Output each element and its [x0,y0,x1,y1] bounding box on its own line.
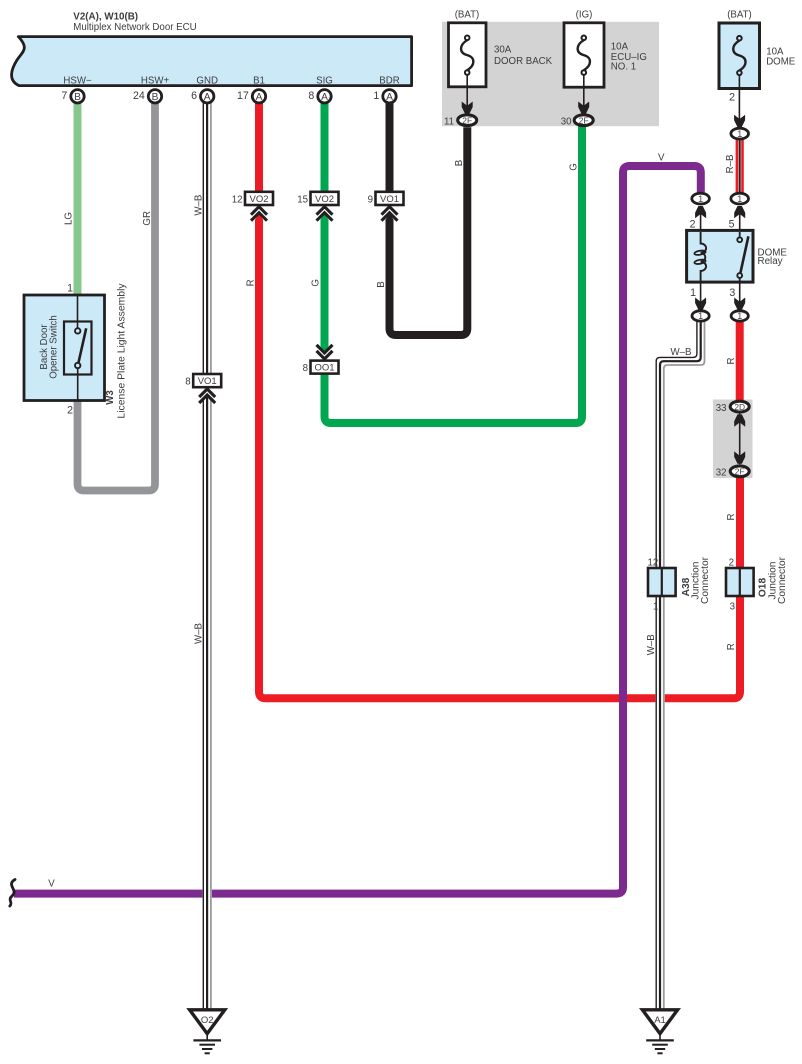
wire relay pin 3 to oval [739,282,741,302]
fuse 10A DOME [719,23,760,89]
svg-text:1: 1 [67,283,73,295]
ECU box V2(A) W10(B) [12,37,412,86]
svg-text:(IG): (IG) [576,10,593,21]
svg-text:R: R [726,358,737,365]
arrow into 2F (30) [578,102,589,114]
arrow up into 2D [734,414,745,426]
svg-text:HSW−: HSW− [63,76,92,87]
wire W-B (GND to ground O2) [203,103,211,1010]
svg-text:GR: GR [142,211,153,226]
pin 1 A [373,90,396,103]
wire fuse1 pin to connector 2F [466,75,468,107]
connector 1 (above relay pin5) [731,193,749,204]
svg-text:8: 8 [308,90,314,102]
svg-text:2F: 2F [735,467,745,477]
svg-text:R: R [726,643,737,650]
connector 1 (relay pin 1) [692,311,709,321]
svg-text:LG: LG [63,212,74,225]
svg-text:(BAT): (BAT) [455,10,480,21]
wire relay pin 1 to oval [700,282,702,302]
svg-text:OO1: OO1 [314,363,334,374]
wire G tip at VO2 [321,213,329,220]
svg-text:VO2: VO2 [315,194,334,205]
svg-text:2F: 2F [579,115,589,125]
pin 17 A [237,90,266,103]
svg-text:2: 2 [67,405,73,417]
svg-text:DOME: DOME [766,57,796,68]
svg-text:1: 1 [690,287,696,299]
svg-text:A: A [386,92,393,103]
svg-text:A: A [256,92,263,103]
svg-text:24: 24 [133,90,145,102]
svg-text:3: 3 [729,287,735,299]
wire GR (HSW+ to switch pin2) [78,103,156,491]
wire B (BDR to 30A fuse) [386,103,394,191]
svg-text:8: 8 [185,377,190,388]
svg-text:32: 32 [716,467,727,478]
svg-text:V2(A), W10(B): V2(A), W10(B) [73,12,138,23]
wire G tip at OO1 [321,346,329,353]
svg-text:30: 30 [561,116,572,127]
wire B tip at VO1 [386,213,394,220]
svg-text:1: 1 [737,194,742,204]
svg-text:B1: B1 [253,76,265,87]
svg-text:2D: 2D [734,402,745,412]
DOME relay box [687,230,753,282]
pin 6 A [191,90,214,103]
svg-text:8: 8 [303,363,308,374]
wire R-B (dome fuse to relay pin5) [737,140,743,193]
svg-text:R: R [726,514,737,521]
svg-text:1: 1 [698,194,703,204]
svg-text:1: 1 [373,90,379,102]
svg-text:12: 12 [232,194,243,205]
wire R (B1 to O18) [255,103,263,191]
junction panel 2D/2F (gray) [713,400,753,479]
svg-text:B: B [376,281,387,287]
line between 2D and 2F [739,414,741,465]
svg-text:Opener Switch: Opener Switch [49,315,60,379]
svg-text:A1: A1 [654,1015,666,1026]
svg-text:2: 2 [729,558,734,569]
fuse 10A ECU-IG NO.1 [564,23,604,87]
svg-text:NO. 1: NO. 1 [611,62,636,73]
svg-text:License Plate Light Assembly: License Plate Light Assembly [117,283,128,419]
connector 1 (below dome fuse) [731,128,749,139]
arrow into connector 1 (dome) [734,115,745,127]
svg-text:A: A [204,92,211,103]
svg-text:B: B [454,160,465,166]
svg-text:5: 5 [729,219,735,231]
svg-text:(BAT): (BAT) [727,10,752,21]
svg-text:VO1: VO1 [198,376,217,387]
svg-text:7: 7 [61,90,67,102]
svg-text:SIG: SIG [316,76,333,87]
svg-text:1: 1 [653,601,658,612]
arrow down into 2F [734,451,745,463]
svg-text:12: 12 [648,558,659,569]
pin 7 B [61,90,84,103]
svg-text:17: 17 [237,90,249,102]
svg-text:6: 6 [191,90,197,102]
svg-text:1: 1 [737,311,742,321]
svg-text:30A: 30A [494,45,512,56]
svg-text:Multiplex Network Door ECU: Multiplex Network Door ECU [73,22,196,33]
junction connector A38 [648,568,676,596]
svg-text:G: G [569,163,580,171]
wire W-B (relay pin1 to ground A1) [656,322,704,1011]
svg-text:VO1: VO1 [380,194,399,205]
arrow into oval (pin2 side) [695,206,706,218]
svg-text:G: G [311,279,322,287]
svg-text:1: 1 [737,129,742,139]
svg-text:VO2: VO2 [249,194,268,205]
wire oval to relay pin 2 [700,214,702,231]
svg-text:V: V [48,878,55,889]
svg-text:GND: GND [196,76,218,87]
svg-text:Connector: Connector [777,556,788,604]
back door opener switch box [24,295,105,401]
svg-text:R–B: R–B [725,155,736,174]
ground A1 [642,1010,677,1054]
svg-text:DOOR BACK: DOOR BACK [494,56,553,67]
svg-text:11: 11 [444,116,454,127]
svg-text:W3: W3 [105,390,116,405]
svg-text:O2: O2 [201,1015,214,1026]
svg-text:W–B: W–B [193,195,204,216]
svg-text:HSW+: HSW+ [141,76,170,87]
svg-text:W–B: W–B [646,634,657,655]
fuse panel (gray) [442,22,659,126]
wire break squiggle (V left end) [10,880,15,907]
svg-text:R: R [246,279,257,286]
wire oval to relay pin 5 [739,214,741,231]
pin 24 B [133,90,162,103]
svg-text:W–B: W–B [671,347,692,358]
svg-text:Connector: Connector [700,556,711,604]
svg-text:BDR: BDR [379,76,399,87]
svg-text:33: 33 [716,403,727,414]
fuse 30A DOOR BACK [449,23,487,87]
svg-text:15: 15 [297,194,308,205]
svg-text:W–B: W–B [193,623,204,644]
svg-text:A: A [321,92,328,103]
junction connector O18 [726,568,754,596]
connector 1 (above relay pin2, V wire) [692,193,710,204]
svg-text:B: B [152,92,159,103]
wire G (SIG to ECU-IG fuse) [321,103,329,191]
svg-text:1: 1 [698,311,703,321]
wire fuse2 pin to connector 2F [583,75,585,107]
wire V (purple) [14,166,701,894]
svg-text:2: 2 [729,92,735,104]
svg-text:2F: 2F [462,115,472,125]
arrow into 2F (11) [462,102,473,114]
ground O2 [190,1010,225,1054]
arrow into oval (pin5 side) [734,206,745,218]
svg-text:B: B [74,92,81,103]
svg-text:9: 9 [368,194,373,205]
svg-text:V: V [658,152,665,163]
svg-text:Relay: Relay [758,256,783,267]
wire R tip at VO2 [255,213,263,220]
wire R (relay pin3 to 2D) [736,322,744,402]
pin 8 A [308,90,331,103]
svg-text:3: 3 [730,601,735,612]
svg-text:2: 2 [690,219,696,231]
connector 1 (relay pin 3) [731,311,748,321]
wire LG (HSW- to switch pin1) [74,103,82,297]
